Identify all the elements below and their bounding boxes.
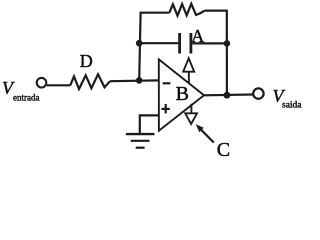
pointer arrow to C xyxy=(196,124,214,142)
svg-text:A: A xyxy=(191,26,204,46)
terminal circle V saida xyxy=(253,88,263,98)
wire feedback right vertical xyxy=(226,10,228,96)
ground xyxy=(126,134,155,148)
op-amp plus sign xyxy=(161,104,169,113)
power arrow down V- xyxy=(185,104,197,124)
svg-text:entrada: entrada xyxy=(13,93,39,103)
wire input from terminal to resistor D xyxy=(47,84,71,86)
power arrow up V+ xyxy=(183,58,194,83)
op-amp B triangle xyxy=(159,59,204,130)
resistor feedback top xyxy=(169,4,205,16)
terminal circle V entrada xyxy=(37,78,47,88)
node input junction xyxy=(136,77,143,84)
wire capacitor right xyxy=(192,42,227,44)
wire capacitor left xyxy=(139,42,178,44)
svg-text:saida: saida xyxy=(282,101,302,111)
wire noninverting input xyxy=(140,115,159,133)
wire feedback left vertical xyxy=(139,13,140,81)
wire feedback top left segment xyxy=(140,12,170,14)
svg-text:D: D xyxy=(80,51,93,71)
wire output xyxy=(204,93,253,96)
label V saida xyxy=(273,86,303,111)
capacitor A right plate xyxy=(189,33,192,54)
svg-text:B: B xyxy=(176,83,189,105)
node capacitor right junction xyxy=(224,40,231,47)
label V entrada xyxy=(2,78,39,103)
resistor D xyxy=(70,74,110,89)
capacitor A left plate xyxy=(178,33,181,54)
wire feedback top right segment xyxy=(205,10,227,12)
svg-text:C: C xyxy=(217,139,230,161)
wire input to op-amp inverting input xyxy=(110,79,159,82)
node output junction xyxy=(224,92,231,99)
op-amp minus sign xyxy=(163,82,171,84)
node capacitor left junction xyxy=(136,40,143,47)
